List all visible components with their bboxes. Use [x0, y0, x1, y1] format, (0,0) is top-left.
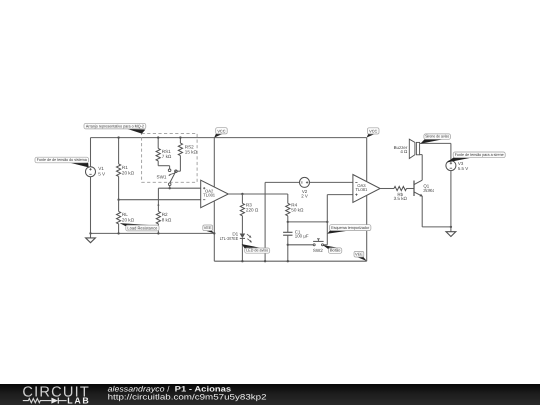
node OA2 output junction	[241, 193, 243, 195]
resistor R2	[156, 211, 160, 223]
label R1 value	[122, 165, 135, 175]
node VEE rail junction	[213, 232, 215, 234]
voltage source V3	[446, 161, 456, 171]
svg-text:20 kΩ: 20 kΩ	[122, 218, 135, 223]
wire Q1 collector lead	[421, 155, 423, 181]
svg-text:20 kΩ: 20 kΩ	[122, 170, 135, 175]
wire V2 minus drop to VEE rail	[264, 182, 266, 261]
callout Sirene de aviso	[420, 134, 450, 144]
node D1 bottom junction	[241, 260, 243, 262]
wire C1 top lead	[287, 222, 289, 232]
wire R3 bottom lead	[241, 216, 243, 234]
resistor R3	[240, 203, 244, 215]
svg-text:4 Ω: 4 Ω	[400, 149, 408, 154]
wire OA2 output to R4	[228, 193, 287, 195]
switch SW1	[168, 169, 177, 186]
transistor Q1	[414, 180, 423, 196]
node SW1 junction	[169, 187, 171, 189]
svg-text:VCC: VCC	[217, 128, 225, 133]
svg-text:220 Ω: 220 Ω	[246, 208, 259, 213]
node emitter-V3 junction	[450, 226, 452, 228]
capacitor C1	[283, 232, 292, 235]
wire V1 top lead	[90, 138, 92, 167]
wire R2 bottom lead	[157, 224, 159, 234]
resistor RL	[117, 211, 121, 223]
wire Q1 emitter lead	[421, 196, 423, 227]
wire OA3 V- supply stub	[366, 195, 368, 261]
label Rb value	[394, 192, 408, 201]
svg-text:2 V: 2 V	[301, 194, 308, 199]
callout Load Resistance	[120, 223, 159, 231]
wire lower VEE rail	[214, 260, 366, 262]
label C1 value	[295, 229, 309, 238]
node C1 bottom junction	[287, 260, 289, 262]
wire C1 node to SW2	[288, 244, 313, 246]
wire RL leads	[118, 200, 120, 234]
resistor R4	[286, 203, 290, 215]
wire R4 node to OA3 branch	[288, 221, 328, 223]
node R1 top rail junction	[117, 136, 119, 138]
svg-text:Sirene de aviso: Sirene de aviso	[425, 134, 450, 139]
resistor RS1	[156, 148, 160, 160]
wire V2 plus to OA3 inverting input	[310, 181, 353, 183]
svg-text:5 V: 5 V	[98, 172, 106, 177]
svg-text:7 kΩ: 7 kΩ	[162, 154, 172, 159]
svg-text:RL: RL	[122, 212, 128, 217]
label SW1	[157, 175, 167, 180]
svg-text:R1: R1	[122, 165, 128, 170]
logo schematic squiggle (resistor + diode)	[23, 399, 52, 403]
label OA3	[355, 183, 368, 192]
wire buzzer bottom terminal	[420, 154, 423, 156]
svg-text:TL081: TL081	[355, 187, 368, 192]
svg-text:VEE: VEE	[204, 225, 212, 230]
wire R1 top lead	[118, 138, 120, 164]
op-amp OA2	[201, 180, 229, 208]
svg-text:3.5 kΩ: 3.5 kΩ	[394, 196, 408, 201]
svg-text:VCC: VCC	[369, 129, 377, 134]
wire OA3 output	[380, 188, 394, 190]
wire R1 bottom lead	[118, 176, 120, 199]
label R4 value	[291, 202, 304, 212]
svg-text:R2: R2	[162, 212, 168, 217]
svg-text:Fonte de de tensão do sistema: Fonte de de tensão do sistema	[37, 157, 88, 162]
footer bar	[0, 384, 540, 405]
node C1-SW2 junction	[287, 244, 289, 246]
node V2 drop junction	[264, 260, 266, 262]
resistor Rb	[394, 186, 406, 190]
node A divider junction	[117, 199, 119, 201]
label RS1 value	[162, 149, 172, 159]
net flag VCC (OA3)	[367, 128, 379, 138]
wire OA2 V+ supply stub	[213, 138, 215, 187]
wire OA3 noninverting input	[327, 194, 353, 196]
wire top VCC rail	[91, 137, 367, 139]
wire OA3 noninverting branch vertical	[326, 195, 328, 245]
node R2 bottom junction	[157, 232, 159, 234]
label R2 value	[162, 212, 172, 222]
label Buzzer value	[394, 145, 408, 154]
resistor R1	[117, 164, 121, 176]
callout Arranjo representativo para o MQ-2	[84, 123, 146, 133]
wire RS2 top lead	[179, 138, 181, 144]
wire OA3 V+ supply stub	[366, 138, 368, 182]
label RL value	[122, 212, 135, 222]
wire SW1 pole to OA2 noninverting input	[158, 187, 200, 189]
wire RS2 bottom lead to SW1 throw	[177, 156, 180, 172]
wire V3 bottom lead	[450, 171, 452, 232]
wire RS1 bottom lead to SW1 throw	[158, 161, 169, 169]
svg-text:Load Resistance: Load Resistance	[127, 225, 158, 230]
wire buzzer top terminal	[420, 142, 451, 144]
svg-text:SW1: SW1	[157, 175, 167, 180]
LED D1	[240, 234, 252, 243]
svg-text:100 µF: 100 µF	[295, 234, 309, 239]
wire node A to OA2 inverting input	[119, 199, 201, 201]
label V2 value	[301, 189, 308, 198]
label V1 value	[98, 166, 106, 176]
wire D1 cathode lead	[241, 238, 243, 261]
wire SW1 pole lead	[169, 185, 171, 188]
node RS2 rail junction	[179, 136, 181, 138]
node R4-C1 junction	[287, 221, 289, 223]
ground (sirene)	[446, 232, 456, 237]
wire SW2 to timer node	[324, 244, 328, 246]
wire Rb to Q1 base	[406, 188, 414, 190]
wire RS1 top lead	[157, 138, 159, 149]
callout Esquema temporizador	[327, 225, 371, 234]
callout Fonte de tensao para a sirene	[446, 152, 505, 163]
callout LED de aviso	[242, 244, 270, 253]
svg-text:http://circuitlab.com/c9m57u5y: http://circuitlab.com/c9m57u5y83kp2	[108, 392, 267, 401]
svg-text:LTL-307EE: LTL-307EE	[220, 236, 239, 241]
svg-text:2N3904: 2N3904	[423, 188, 434, 193]
svg-text:VEE: VEE	[355, 252, 363, 257]
wire R3 top lead	[241, 194, 243, 203]
svg-text:LED de aviso: LED de aviso	[246, 248, 269, 253]
resistor RS2	[178, 143, 182, 155]
node RL bottom junction	[117, 232, 119, 234]
voltage source V2	[300, 177, 310, 187]
voltage source V1	[86, 167, 96, 177]
svg-text:15 kΩ: 15 kΩ	[185, 150, 198, 155]
label V3 value	[458, 161, 468, 171]
wire C1 bottom lead	[287, 235, 289, 261]
svg-text:Arranjo representativo para o: Arranjo representativo para o MQ-2	[86, 123, 145, 128]
wire left ground rail	[91, 232, 215, 234]
label D1 value	[220, 231, 239, 240]
label OA2	[203, 188, 216, 197]
op-amp OA3	[353, 175, 380, 203]
buzzer SP1	[409, 139, 419, 158]
svg-text:50 kΩ: 50 kΩ	[291, 208, 304, 213]
svg-text:5.5 V: 5.5 V	[458, 166, 468, 171]
svg-text:TL081: TL081	[203, 193, 216, 198]
node timer branch junction	[326, 221, 328, 223]
label SW2	[313, 248, 323, 253]
wire noninverting corner to R2	[157, 188, 159, 205]
wire R4 bottom lead	[287, 216, 289, 222]
wire emitter to V3 ground	[422, 226, 451, 228]
svg-text:Fonte de tensão para a sirene: Fonte de tensão para a sirene	[455, 152, 505, 157]
switch SW2 pushbutton	[313, 239, 324, 246]
ground	[86, 233, 96, 242]
dashed box MQ-2 arrangement	[142, 133, 198, 182]
svg-text:SW2: SW2	[313, 248, 323, 253]
callout Botao	[323, 245, 342, 253]
label Q1 value	[423, 183, 434, 193]
callout Fonte de tensao do sistema	[35, 157, 89, 167]
wire V3 top lead	[450, 143, 452, 160]
svg-text:Esquema temporizador: Esquema temporizador	[331, 225, 370, 230]
svg-text:Botão: Botão	[330, 248, 341, 253]
svg-text:LAB: LAB	[67, 395, 90, 405]
node R2 top	[158, 204, 160, 206]
net flag VEE (OA3)	[354, 251, 367, 261]
wire V1 bottom lead	[90, 177, 92, 234]
node V1-ground junction	[89, 232, 91, 234]
label RS2 value	[185, 144, 198, 154]
wire R2 upper lead	[157, 205, 159, 211]
svg-text:8 kΩ: 8 kΩ	[162, 218, 172, 223]
wire R4 top lead	[287, 194, 289, 203]
svg-text:V1: V1	[98, 166, 104, 171]
wire OA2 V- supply stub	[213, 201, 215, 261]
net flag VCC (OA2)	[214, 128, 227, 138]
net flag VEE (left rail)	[203, 225, 215, 233]
wire V2 minus lead	[265, 181, 299, 183]
label R3 value	[246, 202, 259, 212]
node RS1 rail junction	[157, 136, 159, 138]
